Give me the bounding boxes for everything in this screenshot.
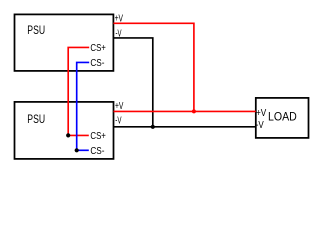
svg-text:-V: -V xyxy=(115,116,121,127)
svg-text:+V: +V xyxy=(115,101,124,112)
svg-text:CS-: CS- xyxy=(90,58,104,69)
svg-text:PSU: PSU xyxy=(27,23,45,37)
svg-text:-V: -V xyxy=(256,119,264,131)
svg-text:CS+: CS+ xyxy=(90,131,106,142)
svg-text:-V: -V xyxy=(116,29,122,40)
svg-text:LOAD: LOAD xyxy=(268,111,297,124)
svg-text:+V: +V xyxy=(115,13,124,24)
svg-text:CS+: CS+ xyxy=(90,43,106,54)
svg-text:PSU: PSU xyxy=(27,112,45,126)
svg-text:CS-: CS- xyxy=(90,146,104,157)
svg-text:+V: +V xyxy=(256,107,266,119)
